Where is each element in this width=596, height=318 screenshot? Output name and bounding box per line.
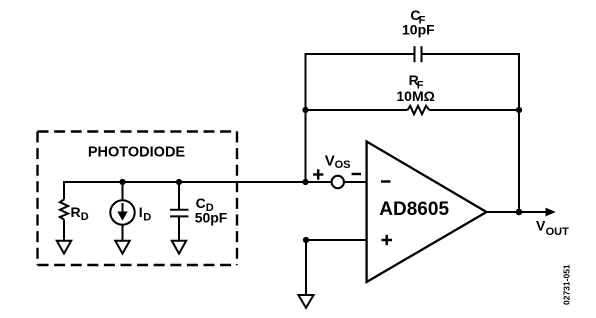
svg-text:PHOTODIODE: PHOTODIODE: [88, 144, 186, 160]
svg-text:D: D: [143, 211, 151, 223]
svg-text:OS: OS: [335, 159, 351, 171]
svg-text:F: F: [419, 15, 426, 27]
svg-text:V: V: [325, 153, 335, 170]
svg-text:D: D: [81, 211, 89, 223]
svg-text:C: C: [196, 195, 206, 211]
svg-text:D: D: [206, 202, 214, 214]
svg-text:10MΩ: 10MΩ: [396, 88, 434, 104]
svg-text:OUT: OUT: [546, 226, 570, 238]
svg-text:V: V: [536, 218, 546, 234]
svg-text:AD8605: AD8605: [379, 199, 449, 220]
svg-text:R: R: [71, 204, 81, 220]
svg-text:I: I: [139, 204, 143, 220]
svg-text:F: F: [417, 80, 424, 92]
svg-text:02731-051: 02731-051: [562, 264, 572, 305]
